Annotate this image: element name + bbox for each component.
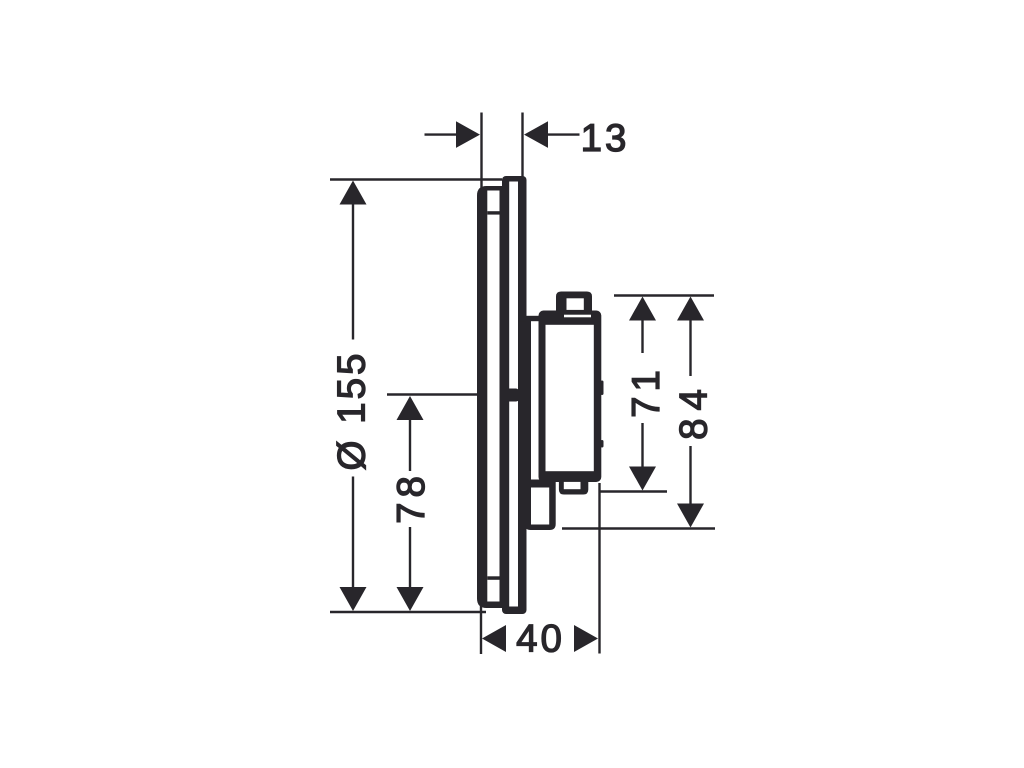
dimension Ø155 line upper [352,204,354,340]
knob right edge nub upper [601,381,604,396]
dimension 71 arrow down [629,467,656,491]
dimension 40 arrow left-pointing [482,625,506,652]
dimension 71 line upper [641,320,643,353]
dimension 13 arrow left-pointing [524,121,548,148]
extension line 13 right [521,113,523,182]
dimension 84 line upper [689,320,691,376]
extension line 40 left [480,598,482,655]
dimension 71 arrow up [629,297,656,321]
dimension 84 line lower [689,446,691,504]
extension line 40 right [598,483,600,654]
svg-text:84: 84 [673,381,716,440]
extension line bottom (Ø155/78) [330,611,486,613]
dimension 71 line lower [641,423,643,468]
lower stop box interior [531,488,549,525]
valve sleeve inner channel [487,191,499,602]
escutcheon plate outer [502,176,527,614]
extension line 71 bottom [600,490,667,492]
dimension Ø155 arrow down [340,587,367,611]
handle knob interior [546,325,594,471]
dimension Ø155 arrow up [340,181,367,205]
knob top sliver [564,315,591,318]
bottom tab outer [559,480,588,495]
dimension 13 arrow right-pointing [456,121,480,148]
sleeve tick bottom [487,576,499,580]
top tab notch [567,298,584,310]
valve sleeve outer [477,186,503,608]
dimension 84 arrow up [677,297,704,321]
top tab outer [556,292,592,314]
svg-text:13: 13 [581,117,630,160]
lower stop box outer [525,480,556,531]
extension line 84 bottom [562,527,715,529]
svg-text:71: 71 [625,365,668,418]
center junction blob [501,389,519,402]
svg-text:40: 40 [516,618,565,661]
dimension 78 line upper [409,420,411,472]
svg-text:78: 78 [390,471,433,524]
sleeve tick top [487,211,499,214]
dimension 78 line lower [409,527,411,588]
escutcheon plate interior [509,182,518,607]
dimension 13 tail right [548,133,580,135]
handle knob outer [539,311,602,483]
extension line top right (71/84) [614,294,714,296]
knob right edge nub lower [601,440,604,448]
dimension 40 arrow right-pointing [574,625,598,652]
cartridge flange line [526,317,531,524]
dimension 78 arrow up [397,396,424,420]
bottom tab notch [564,482,581,489]
connector plate to knob [519,316,540,321]
extension line top (Ø155) [330,178,502,180]
dimension 84 arrow down [677,504,704,528]
dimension 78 arrow down [397,587,424,611]
dimension 13 tail left [425,133,457,135]
svg-text:Ø 155: Ø 155 [331,351,374,471]
dimension Ø155 line lower [352,477,354,588]
center line node [387,393,504,395]
extension line 13 left [480,113,482,195]
